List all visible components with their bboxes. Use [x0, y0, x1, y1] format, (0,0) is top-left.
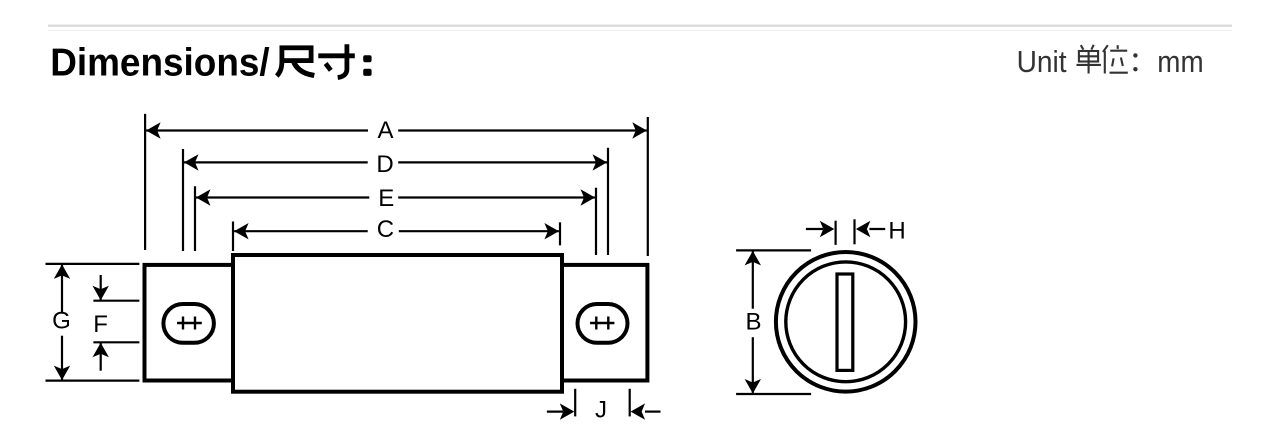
inner circle [786, 262, 906, 382]
dimension E arrowheads [196, 189, 595, 205]
dimension G tick lines [46, 264, 140, 381]
dimension C extension lines [233, 222, 560, 252]
heading CJK glyph 尺 [277, 48, 315, 76]
dimension D line [184, 161, 607, 163]
dimension E line [196, 196, 595, 198]
heading colon [363, 55, 371, 76]
dimension C line [234, 230, 559, 232]
dimension A line [146, 129, 647, 131]
dimension J arrow lines [547, 411, 661, 413]
dimension F tick lines [93, 301, 139, 343]
unit fullwidth colon [1133, 53, 1137, 71]
heading CJK glyph 寸 [318, 44, 355, 77]
dimension B tick lines [736, 250, 811, 394]
svg-text:H: H [888, 217, 905, 244]
dimension H extension lines [836, 219, 855, 245]
dimension B line [752, 251, 754, 393]
right end cap rectangle [562, 265, 647, 381]
left slot hole (stadium) [163, 304, 214, 343]
svg-text:G: G [52, 308, 71, 335]
unit CJK glyph 位 [1103, 45, 1128, 73]
right slot hole (stadium) [578, 304, 628, 343]
dimension E extension lines [195, 186, 596, 255]
svg-text:mm: mm [1157, 44, 1203, 79]
svg-text:Unit: Unit [1017, 44, 1067, 79]
svg-text:A: A [377, 117, 393, 144]
svg-text:C: C [377, 216, 394, 243]
dimension C arrowheads [234, 223, 559, 239]
dimension H arrowheads [820, 221, 871, 237]
dimension A extension lines [145, 114, 648, 256]
dimension G line [61, 265, 63, 380]
dimension D arrowheads [184, 154, 607, 170]
svg-text:B: B [745, 308, 761, 335]
unit CJK glyph 单 [1077, 45, 1101, 74]
dimension A arrowheads [146, 122, 647, 138]
dimension F arrowheads [93, 286, 109, 358]
right slot center marks [590, 317, 614, 330]
svg-text:D: D [376, 151, 393, 178]
dimension J arrowheads [560, 403, 645, 419]
svg-text:F: F [93, 311, 108, 338]
slot rectangle [837, 274, 853, 370]
dimension D extension lines [183, 148, 608, 255]
svg-text:J: J [595, 397, 607, 424]
dimension F arrow lines [100, 275, 102, 371]
svg-text:Dimensions/: Dimensions/ [50, 42, 270, 85]
dimension G arrowheads [54, 264, 70, 380]
left slot center marks [177, 317, 202, 330]
left end cap rectangle [145, 265, 234, 381]
dimension H arrow lines [806, 228, 885, 230]
svg-text:E: E [378, 185, 394, 212]
outer circle [776, 252, 916, 392]
dimension J extension lines [575, 389, 630, 417]
dimension B arrowheads [745, 251, 761, 394]
fuse body rectangle [233, 255, 562, 392]
top divider rule [48, 25, 1232, 31]
